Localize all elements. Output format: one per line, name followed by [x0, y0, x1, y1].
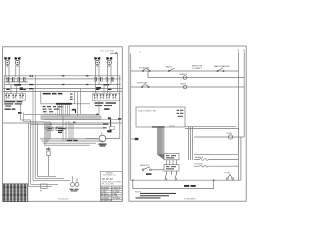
svg-text:MR MAROON: MR MAROON: [101, 199, 112, 202]
svg-text:ELEC OVEN CTRL: ELEC OVEN CTRL: [139, 111, 158, 113]
svg-text:BL-BROIL: BL-BROIL: [195, 164, 205, 166]
svg-text:P1: P1: [40, 190, 42, 192]
svg-text:BAKE RLY: BAKE RLY: [140, 164, 150, 167]
svg-text:TH - 105C MIN: TH - 105C MIN: [102, 184, 115, 186]
svg-text:speed: speed: [169, 126, 174, 128]
svg-text:CONV: CONV: [226, 133, 232, 135]
svg-text:T-RH STAT: T-RH STAT: [137, 82, 148, 85]
svg-text:OVEN LT: OVEN LT: [179, 74, 188, 76]
svg-text:4P 4P AP: 4P 4P AP: [102, 177, 113, 181]
svg-text:TO L1 (2) VIA: TO L1 (2) VIA: [100, 49, 114, 52]
svg-text:CODE AWG CU: CODE AWG CU: [103, 174, 117, 177]
svg-text:316445200: 316445200: [58, 198, 69, 200]
svg-text:LIGHT: LIGHT: [180, 83, 187, 85]
svg-text:DOOR SW: DOOR SW: [139, 67, 149, 69]
svg-text:BROIL: BROIL: [166, 67, 173, 69]
svg-text:OR ORNG: OR ORNG: [112, 198, 121, 200]
svg-text:MAN CLEAN SW: MAN CLEAN SW: [214, 65, 230, 68]
svg-text:SCHEMATIC: SCHEMATIC: [184, 198, 197, 201]
svg-text:P SW: P SW: [225, 172, 230, 174]
svg-text:L1 CAVITY: L1 CAVITY: [192, 67, 203, 70]
svg-text:BA-BAKE: BA-BAKE: [195, 156, 204, 159]
